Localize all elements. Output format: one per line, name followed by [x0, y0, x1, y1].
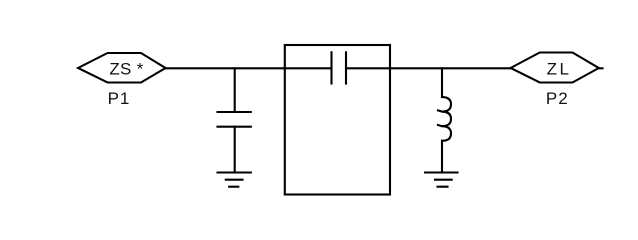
wire: inductor bottom lead — [441, 141, 443, 173]
wire: series capacitor right plate to P2 — [346, 67, 511, 69]
capacitor C2 (series, inside box) plates — [330, 52, 332, 83]
box (subnetwork outline) — [285, 45, 390, 195]
svg-text:ZL: ZL — [547, 59, 572, 78]
ground (left) — [218, 173, 251, 187]
wire: inductor top lead — [441, 68, 443, 97]
port P2 hexagon — [511, 53, 599, 83]
capacitor C1 (shunt) plates — [218, 111, 251, 113]
wire: P1 to series capacitor left plate — [166, 67, 332, 69]
wire: shunt capacitor bottom lead — [234, 127, 236, 173]
inductor L1 coil — [438, 97, 451, 141]
svg-text:ZS *: ZS * — [109, 59, 143, 78]
wire: shunt capacitor top lead — [234, 68, 236, 112]
port P1 hexagon — [78, 53, 166, 83]
svg-text:P2: P2 — [546, 89, 569, 108]
stub right of P2 — [599, 67, 603, 69]
ground (right) — [425, 173, 458, 187]
svg-text:P1: P1 — [108, 89, 131, 108]
